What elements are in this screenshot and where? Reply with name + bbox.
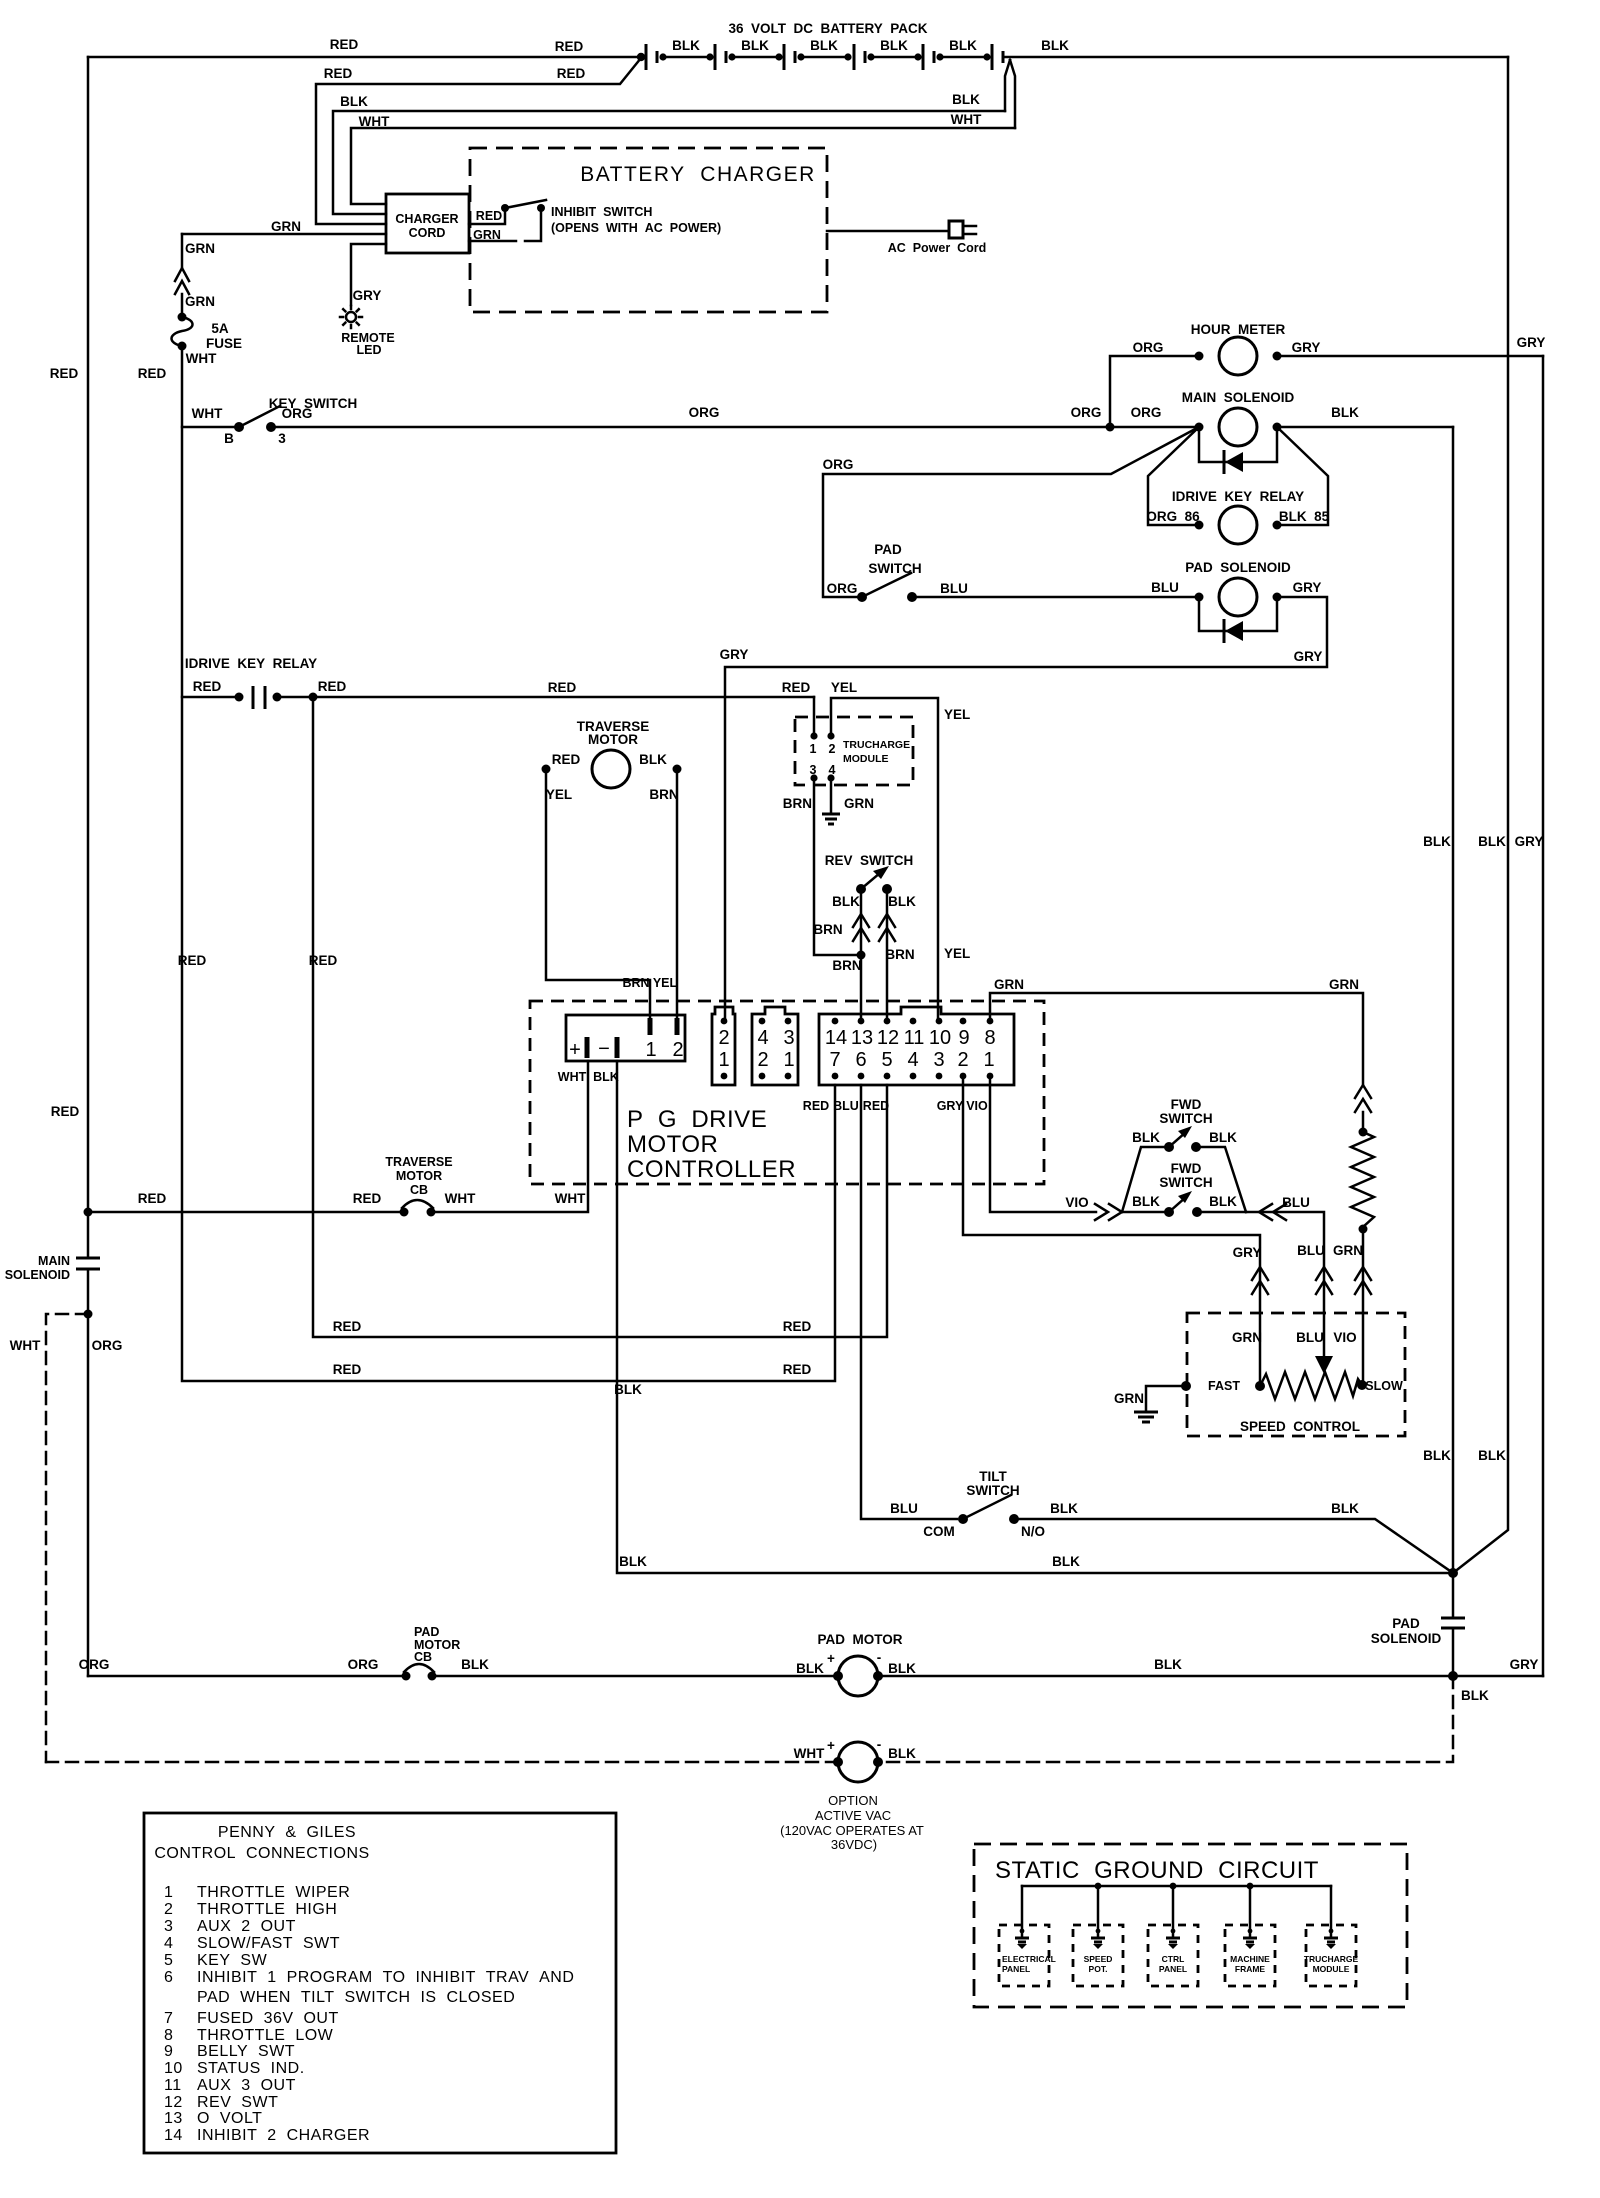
svg-text:12: 12 bbox=[877, 1027, 899, 1049]
svg-text:WHT: WHT bbox=[359, 114, 390, 129]
svg-text:IDRIVE KEY RELAY: IDRIVE KEY RELAY bbox=[1172, 489, 1304, 504]
svg-text:BLK 85: BLK 85 bbox=[1279, 509, 1330, 524]
svg-text:PANEL: PANEL bbox=[1159, 1964, 1187, 1974]
svg-text:PANEL: PANEL bbox=[1002, 1964, 1030, 1974]
svg-text:VIO: VIO bbox=[1065, 1195, 1088, 1210]
svg-text:GRN: GRN bbox=[1114, 1391, 1144, 1406]
fuse 5A bbox=[172, 313, 243, 367]
svg-text:BLK: BLK bbox=[1132, 1194, 1160, 1209]
node main solenoid contact top bbox=[84, 1208, 93, 1217]
svg-text:PAD MOTOR: PAD MOTOR bbox=[817, 1632, 902, 1647]
node BLK junction bbox=[1448, 1568, 1458, 1578]
svg-text:1: 1 bbox=[983, 1049, 994, 1071]
svg-text:ORG 86: ORG 86 bbox=[1146, 509, 1200, 524]
node ORG junction bbox=[1106, 423, 1115, 432]
svg-text:MACHINE: MACHINE bbox=[1230, 1954, 1270, 1964]
svg-text:BLU: BLU bbox=[890, 1501, 918, 1516]
svg-text:INHIBIT 2 CHARGER: INHIBIT 2 CHARGER bbox=[197, 2127, 370, 2144]
14-pin connector bbox=[819, 1007, 1014, 1085]
resistor (vertical) bbox=[1351, 1085, 1374, 1234]
svg-text:YEL: YEL bbox=[944, 707, 970, 722]
svg-text:1: 1 bbox=[783, 1049, 794, 1071]
svg-text:RED: RED bbox=[783, 1362, 812, 1377]
svg-text:FAST: FAST bbox=[1208, 1379, 1240, 1393]
wire RED to traverse motor CB bbox=[88, 1191, 404, 1212]
svg-text:BLK: BLK bbox=[1052, 1554, 1080, 1569]
svg-text:GRY: GRY bbox=[720, 647, 749, 662]
svg-text:SWITCH: SWITCH bbox=[868, 561, 921, 576]
svg-text:10: 10 bbox=[164, 2060, 183, 2077]
svg-text:BLK: BLK bbox=[614, 1382, 642, 1397]
svg-text:TRAVERSE: TRAVERSE bbox=[385, 1155, 452, 1169]
svg-text:ORG: ORG bbox=[282, 406, 313, 421]
svg-text:SPEED CONTROL: SPEED CONTROL bbox=[1240, 1419, 1360, 1434]
wire BLU pad switch to pad solenoid bbox=[912, 580, 1199, 597]
wire BRN rev switch left to pin 13 bbox=[832, 889, 869, 1021]
svg-text:1: 1 bbox=[810, 742, 817, 756]
wire GRY hour meter vertical right side bbox=[1515, 356, 1544, 1676]
pad motor CB bbox=[402, 1625, 461, 1681]
wire RED main left vertical bbox=[50, 57, 88, 1258]
wire ORG pad motor line left bbox=[79, 1657, 404, 1676]
svg-text:WHT: WHT bbox=[794, 1746, 825, 1761]
svg-text:SOLENOID: SOLENOID bbox=[1371, 1631, 1442, 1646]
wire GRY (charger cord to remote LED) bbox=[351, 244, 386, 305]
svg-text:MOTOR: MOTOR bbox=[588, 732, 638, 747]
svg-text:VIO: VIO bbox=[1333, 1330, 1356, 1345]
svg-text:AUX 3 OUT: AUX 3 OUT bbox=[197, 2077, 296, 2094]
svg-text:TRUCHARGE: TRUCHARGE bbox=[1304, 1954, 1359, 1964]
svg-text:9: 9 bbox=[958, 1027, 969, 1049]
svg-text:RED: RED bbox=[324, 66, 353, 81]
svg-text:13: 13 bbox=[851, 1027, 873, 1049]
svg-text:5: 5 bbox=[164, 1952, 173, 1969]
svg-text:BRN: BRN bbox=[832, 958, 861, 973]
svg-text:GRN: GRN bbox=[1333, 1243, 1363, 1258]
wire GRN pin 8 to resistor bbox=[990, 977, 1363, 1085]
svg-text:3: 3 bbox=[164, 1918, 173, 1935]
svg-text:BLK: BLK bbox=[880, 38, 908, 53]
fwd switch upper bbox=[1122, 1097, 1246, 1212]
svg-text:THROTTLE WIPER: THROTTLE WIPER bbox=[197, 1884, 350, 1901]
ground drop electrical panel bbox=[999, 1886, 1056, 1986]
tilt switch bbox=[923, 1469, 1045, 1539]
battery cell B2 bbox=[715, 38, 783, 70]
svg-text:+: + bbox=[569, 1039, 581, 1061]
svg-text:2: 2 bbox=[164, 1901, 173, 1918]
svg-text:RED: RED bbox=[555, 39, 584, 54]
wire BLK tilt switch to right junction bbox=[1014, 1501, 1453, 1573]
svg-text:YEL: YEL bbox=[831, 680, 857, 695]
svg-text:4: 4 bbox=[164, 1935, 173, 1952]
svg-text:BLK: BLK bbox=[741, 38, 769, 53]
svg-text:TILT: TILT bbox=[979, 1469, 1007, 1484]
svg-text:AUX 2 OUT: AUX 2 OUT bbox=[197, 1918, 296, 1935]
svg-text:RED: RED bbox=[552, 752, 581, 767]
wire BRN rev switch right to pin 12 bbox=[879, 889, 915, 1021]
svg-text:RED: RED bbox=[138, 1191, 167, 1206]
svg-text:GRN: GRN bbox=[1232, 1330, 1262, 1345]
svg-text:BLK: BLK bbox=[832, 894, 860, 909]
svg-text:BLU: BLU bbox=[940, 581, 968, 596]
svg-text:KEY SW: KEY SW bbox=[197, 1952, 268, 1969]
svg-text:PENNY & GILES: PENNY & GILES bbox=[218, 1824, 356, 1841]
svg-text:-: - bbox=[877, 1737, 882, 1752]
svg-text:BLU: BLU bbox=[1296, 1330, 1324, 1345]
connector 4/3/2/1 bbox=[752, 1007, 798, 1085]
svg-text:GRN: GRN bbox=[185, 294, 215, 309]
svg-text:RED: RED bbox=[557, 66, 586, 81]
wire GRN (fuse to charger cord) bbox=[182, 219, 386, 234]
svg-text:P G DRIVE: P G DRIVE bbox=[627, 1106, 767, 1133]
svg-text:BLK: BLK bbox=[593, 1070, 619, 1084]
speed control dashed box bbox=[1187, 1313, 1405, 1436]
traverse motor CB bbox=[385, 1155, 452, 1217]
svg-text:BATTERY CHARGER: BATTERY CHARGER bbox=[580, 163, 816, 186]
remote LED bbox=[340, 306, 395, 357]
svg-text:10: 10 bbox=[929, 1027, 951, 1049]
svg-text:2: 2 bbox=[757, 1049, 768, 1071]
svg-text:BLK: BLK bbox=[340, 94, 368, 109]
svg-text:BLK: BLK bbox=[1478, 834, 1506, 849]
svg-text:11: 11 bbox=[164, 2077, 182, 2094]
svg-text:BELLY SWT: BELLY SWT bbox=[197, 2043, 295, 2060]
charger cord box bbox=[386, 194, 469, 253]
svg-text:HOUR METER: HOUR METER bbox=[1191, 322, 1286, 337]
svg-text:B: B bbox=[224, 431, 234, 446]
wire BLK pad motor to right junction bbox=[878, 1657, 1453, 1676]
svg-text:−: − bbox=[598, 1038, 610, 1060]
svg-text:BLK: BLK bbox=[949, 38, 977, 53]
svg-text:4: 4 bbox=[757, 1027, 768, 1049]
wire BLK main solenoid vertical right side bbox=[1423, 427, 1453, 1573]
svg-text:BLK: BLK bbox=[888, 1661, 916, 1676]
svg-text:WHT: WHT bbox=[555, 1191, 586, 1206]
svg-text:GRY: GRY bbox=[353, 288, 382, 303]
svg-text:STATIC GROUND CIRCUIT: STATIC GROUND CIRCUIT bbox=[995, 1857, 1319, 1884]
wire BLK main solenoid to right vertical bbox=[1277, 405, 1453, 427]
svg-text:GRN: GRN bbox=[844, 796, 874, 811]
svg-text:LED: LED bbox=[357, 343, 382, 357]
svg-text:BLK: BLK bbox=[1423, 834, 1451, 849]
svg-text:5A: 5A bbox=[211, 321, 229, 336]
wire BLK dashed to option vac bbox=[878, 1676, 1489, 1762]
wire BLK (battery negative to charger cord) bbox=[333, 60, 1010, 214]
svg-text:BLK: BLK bbox=[796, 1661, 824, 1676]
svg-text:POT.: POT. bbox=[1089, 1964, 1108, 1974]
option active vac motor bbox=[46, 1737, 924, 1852]
svg-text:CB: CB bbox=[414, 1650, 432, 1664]
svg-text:2: 2 bbox=[957, 1049, 968, 1071]
battery cell B4 bbox=[854, 38, 922, 70]
svg-text:YEL: YEL bbox=[653, 976, 678, 990]
wire traverse motor right to pin 2 bbox=[653, 769, 678, 1018]
wire RED left vertical (key switch line down to pin 7 line) bbox=[138, 366, 835, 1381]
pad solenoid coil bbox=[1185, 560, 1321, 616]
svg-text:BLK: BLK bbox=[1154, 1657, 1182, 1672]
wire labels under 14-pin connector bbox=[803, 1099, 988, 1113]
svg-text:RED: RED bbox=[138, 366, 167, 381]
svg-text:BLK: BLK bbox=[1478, 1448, 1506, 1463]
svg-text:GRY: GRY bbox=[1293, 580, 1322, 595]
svg-text:BLU: BLU bbox=[1282, 1195, 1310, 1210]
node pad line junction bbox=[1448, 1671, 1458, 1681]
svg-text:BLK: BLK bbox=[1041, 38, 1069, 53]
wire BLK CB to pad motor bbox=[432, 1657, 838, 1676]
svg-text:BLK: BLK bbox=[952, 92, 980, 107]
svg-text:BLK: BLK bbox=[1050, 1501, 1078, 1516]
svg-text:GRY: GRY bbox=[937, 1099, 964, 1113]
svg-text:RED: RED bbox=[333, 1319, 362, 1334]
svg-text:RED: RED bbox=[863, 1099, 889, 1113]
svg-text:5: 5 bbox=[881, 1049, 892, 1071]
svg-text:CTRL: CTRL bbox=[1162, 1954, 1185, 1964]
svg-text:WHT: WHT bbox=[558, 1070, 587, 1084]
penny & giles box bbox=[144, 1813, 616, 2153]
svg-text:MAIN: MAIN bbox=[38, 1254, 70, 1268]
svg-text:ORG: ORG bbox=[823, 457, 854, 472]
svg-text:SOLENOID: SOLENOID bbox=[5, 1268, 70, 1282]
svg-text:ORG: ORG bbox=[827, 581, 858, 596]
wire BLU pin 6 to tilt switch bbox=[861, 1085, 957, 1519]
svg-text:RED: RED bbox=[782, 680, 811, 695]
svg-text:CONTROL CONNECTIONS: CONTROL CONNECTIONS bbox=[154, 1845, 369, 1862]
svg-text:RED: RED bbox=[50, 366, 79, 381]
wire BLK controller minus to right junction bbox=[614, 1061, 1453, 1573]
diode across pad solenoid bbox=[1199, 597, 1277, 643]
svg-text:GRN: GRN bbox=[271, 219, 301, 234]
svg-text:PAD: PAD bbox=[1392, 1616, 1420, 1631]
battery cell B1 bbox=[637, 38, 714, 70]
svg-text:CONTROLLER: CONTROLLER bbox=[627, 1156, 796, 1183]
svg-text:SLOW: SLOW bbox=[1365, 1379, 1403, 1393]
svg-text:GRY: GRY bbox=[1294, 649, 1323, 664]
svg-text:3: 3 bbox=[783, 1027, 794, 1049]
wire RED to trucharge pin 1 bbox=[813, 697, 816, 736]
wire GRN vertical with chevrons bbox=[175, 234, 215, 317]
trucharge pin 4 bbox=[827, 763, 835, 782]
svg-text:THROTTLE HIGH: THROTTLE HIGH bbox=[197, 1901, 337, 1918]
wire traverse motor left to pin 1 bbox=[546, 769, 650, 1018]
svg-text:BLK: BLK bbox=[1331, 405, 1359, 420]
pad solenoid contact bbox=[1371, 1573, 1465, 1676]
svg-text:RED: RED bbox=[353, 1191, 382, 1206]
svg-text:GRY: GRY bbox=[1510, 1657, 1539, 1672]
svg-text:TRUCHARGE: TRUCHARGE bbox=[843, 739, 910, 751]
svg-text:SLOW/FAST SWT: SLOW/FAST SWT bbox=[197, 1935, 340, 1952]
ground drop machine frame bbox=[1225, 1886, 1275, 1986]
svg-text:RED: RED bbox=[193, 679, 222, 694]
trucharge module dashed box bbox=[795, 717, 913, 785]
svg-text:SWITCH: SWITCH bbox=[1159, 1111, 1212, 1126]
wire VIO pin 1 to fwd switch bbox=[990, 1076, 1169, 1220]
svg-text:WHT: WHT bbox=[192, 406, 223, 421]
main solenoid contact (left) bbox=[5, 1254, 100, 1314]
svg-text:RED: RED bbox=[333, 1362, 362, 1377]
wire WHT CB to controller plus pin bbox=[431, 1061, 588, 1212]
trucharge pin 2 bbox=[827, 732, 835, 756]
svg-text:2: 2 bbox=[829, 742, 836, 756]
motor terminal connector bbox=[558, 1015, 685, 1084]
svg-text:RED: RED bbox=[318, 679, 347, 694]
wire GRY hour meter to right vertical bbox=[1277, 335, 1545, 356]
svg-text:-: - bbox=[877, 1650, 882, 1665]
svg-text:THROTTLE LOW: THROTTLE LOW bbox=[197, 2027, 334, 2044]
svg-text:SPEED: SPEED bbox=[1084, 1954, 1113, 1964]
svg-text:14: 14 bbox=[825, 1027, 847, 1049]
svg-text:FWD: FWD bbox=[1171, 1097, 1202, 1112]
svg-text:RED: RED bbox=[178, 953, 207, 968]
svg-text:GRY: GRY bbox=[1233, 1245, 1262, 1260]
svg-text:(OPENS WITH AC POWER): (OPENS WITH AC POWER) bbox=[551, 221, 721, 235]
fwd switch lower bbox=[1132, 1161, 1246, 1217]
svg-text:1: 1 bbox=[718, 1049, 729, 1071]
svg-text:4: 4 bbox=[907, 1049, 918, 1071]
rev switch bbox=[825, 853, 916, 909]
svg-text:REV SWITCH: REV SWITCH bbox=[825, 853, 914, 868]
svg-text:BRN: BRN bbox=[813, 922, 842, 937]
wire BRN trucharge pin 3 down bbox=[783, 778, 858, 955]
battery charger dashed enclosure bbox=[470, 148, 827, 312]
svg-text:(120VAC OPERATES AT: (120VAC OPERATES AT bbox=[780, 1823, 924, 1838]
traverse motor bbox=[542, 719, 682, 802]
svg-text:ACTIVE VAC: ACTIVE VAC bbox=[815, 1808, 891, 1823]
static ground dashed box bbox=[974, 1844, 1407, 2007]
svg-text:GRN: GRN bbox=[1329, 977, 1359, 992]
svg-text:VIO: VIO bbox=[966, 1099, 988, 1113]
svg-text:AC Power Cord: AC Power Cord bbox=[888, 241, 987, 255]
svg-text:CHARGER: CHARGER bbox=[395, 212, 458, 226]
svg-text:CORD: CORD bbox=[409, 226, 446, 240]
svg-text:ORG: ORG bbox=[1131, 405, 1162, 420]
svg-text:ORG: ORG bbox=[92, 1338, 123, 1353]
svg-text:MOTOR: MOTOR bbox=[627, 1131, 718, 1158]
svg-text:GRN: GRN bbox=[473, 228, 501, 242]
svg-text:CB: CB bbox=[410, 1183, 428, 1197]
diode across main solenoid bbox=[1199, 427, 1277, 474]
battery cell B5 bbox=[923, 38, 991, 70]
ground drop ctrl panel bbox=[1148, 1886, 1198, 1986]
wire BLU fwd switch to speed control bbox=[1246, 1195, 1333, 1374]
svg-text:BRN: BRN bbox=[649, 787, 678, 802]
svg-text:13: 13 bbox=[164, 2110, 183, 2127]
AC power cord bbox=[827, 221, 986, 255]
svg-text:ORG: ORG bbox=[689, 405, 720, 420]
pad motor bbox=[817, 1632, 902, 1696]
trucharge pin 3 bbox=[810, 763, 818, 782]
idrive key relay coil bbox=[1146, 427, 1329, 544]
svg-text:BRN: BRN bbox=[885, 947, 914, 962]
svg-text:BLK: BLK bbox=[888, 1746, 916, 1761]
svg-text:7: 7 bbox=[829, 1049, 840, 1071]
svg-text:INHIBIT SWITCH: INHIBIT SWITCH bbox=[551, 205, 652, 219]
svg-text:WHT: WHT bbox=[10, 1338, 41, 1353]
ground GRN trucharge pin 4 bbox=[822, 778, 874, 824]
svg-text:BLU: BLU bbox=[1297, 1243, 1325, 1258]
wire WHT fuse to key switch bbox=[182, 346, 234, 427]
wire ORG down to pad motor line bbox=[88, 1314, 122, 1676]
svg-text:+: + bbox=[827, 1738, 835, 1753]
svg-text:2: 2 bbox=[718, 1027, 729, 1049]
svg-text:36 VOLT DC BATTERY PACK: 36 VOLT DC BATTERY PACK bbox=[728, 21, 927, 36]
svg-text:COM: COM bbox=[923, 1524, 955, 1539]
svg-text:GRN: GRN bbox=[994, 977, 1024, 992]
svg-text:BLK: BLK bbox=[1209, 1130, 1237, 1145]
svg-text:WHT: WHT bbox=[186, 351, 217, 366]
wire WHT dashed to option vac bbox=[10, 1314, 88, 1762]
svg-text:BLU: BLU bbox=[833, 1099, 859, 1113]
trucharge pin 1 bbox=[810, 732, 818, 756]
ground drop trucharge module bbox=[1304, 1886, 1359, 1986]
hour meter bbox=[1133, 322, 1321, 375]
svg-text:11: 11 bbox=[904, 1027, 925, 1049]
svg-text:12: 12 bbox=[164, 2094, 183, 2111]
svg-text:ORG: ORG bbox=[1133, 340, 1164, 355]
wire ORG key switch to main solenoid node bbox=[271, 405, 1110, 427]
svg-text:ORG: ORG bbox=[79, 1657, 110, 1672]
svg-text:BLK: BLK bbox=[1209, 1194, 1237, 1209]
svg-text:BLK: BLK bbox=[619, 1554, 647, 1569]
ground drop speed pot bbox=[1073, 1886, 1123, 1986]
svg-text:2: 2 bbox=[672, 1039, 683, 1061]
wire WHT (battery sense to charger cord) bbox=[351, 60, 1015, 204]
svg-text:7: 7 bbox=[164, 2010, 173, 2027]
svg-text:REV SWT: REV SWT bbox=[197, 2094, 278, 2111]
svg-text:ORG: ORG bbox=[348, 1657, 379, 1672]
svg-text:BLK: BLK bbox=[810, 38, 838, 53]
svg-text:ORG: ORG bbox=[1071, 405, 1102, 420]
svg-text:BLK: BLK bbox=[461, 1657, 489, 1672]
svg-text:1: 1 bbox=[164, 1884, 173, 1901]
svg-text:RED: RED bbox=[330, 37, 359, 52]
svg-text:O VOLT: O VOLT bbox=[197, 2110, 262, 2127]
speed control potentiometer bbox=[1208, 1372, 1403, 1399]
svg-text:FRAME: FRAME bbox=[1235, 1964, 1266, 1974]
svg-text:RED: RED bbox=[548, 680, 577, 695]
wire GRY pad solenoid to controller connector bbox=[720, 597, 1327, 1021]
idrive key relay contact (left) bbox=[182, 656, 814, 709]
wire GRN resistor to speed control SLOW bbox=[1333, 1229, 1371, 1385]
svg-text:YEL: YEL bbox=[546, 787, 572, 802]
svg-text:PAD SOLENOID: PAD SOLENOID bbox=[1185, 560, 1291, 575]
wire BLK battery vertical right side bbox=[1453, 57, 1508, 1573]
svg-text:FUSED 36V OUT: FUSED 36V OUT bbox=[197, 2010, 339, 2027]
svg-text:SWITCH: SWITCH bbox=[1159, 1175, 1212, 1190]
svg-text:FWD: FWD bbox=[1171, 1161, 1202, 1176]
svg-text:1: 1 bbox=[645, 1039, 656, 1061]
svg-text:N/O: N/O bbox=[1021, 1524, 1045, 1539]
wire BLK battery output to right edge bbox=[1004, 38, 1508, 57]
svg-text:BLK: BLK bbox=[888, 894, 916, 909]
ground GRN speed control bbox=[1114, 1381, 1191, 1422]
ground bus bbox=[1022, 1883, 1331, 1890]
svg-text:BLK: BLK bbox=[639, 752, 667, 767]
wire BLK junction to GRY vertical bbox=[1453, 1657, 1543, 1676]
svg-text:MODULE: MODULE bbox=[1313, 1964, 1350, 1974]
svg-text:MOTOR: MOTOR bbox=[396, 1169, 442, 1183]
svg-text:PAD: PAD bbox=[874, 542, 902, 557]
svg-text:FUSE: FUSE bbox=[206, 336, 242, 351]
svg-text:BRN: BRN bbox=[783, 796, 812, 811]
svg-text:6: 6 bbox=[164, 1969, 173, 1986]
wire GRY pin 2 to speed control FAST bbox=[963, 1076, 1268, 1385]
wire RED second (to charger cord) bbox=[316, 58, 641, 224]
svg-text:RED: RED bbox=[51, 1104, 80, 1119]
wire YEL trucharge pin 2 to controller pin 10 bbox=[831, 680, 970, 1021]
svg-text:9: 9 bbox=[164, 2043, 173, 2060]
wire RED relay junction down to pin 5 line bbox=[309, 697, 887, 1337]
svg-text:8: 8 bbox=[984, 1027, 995, 1049]
